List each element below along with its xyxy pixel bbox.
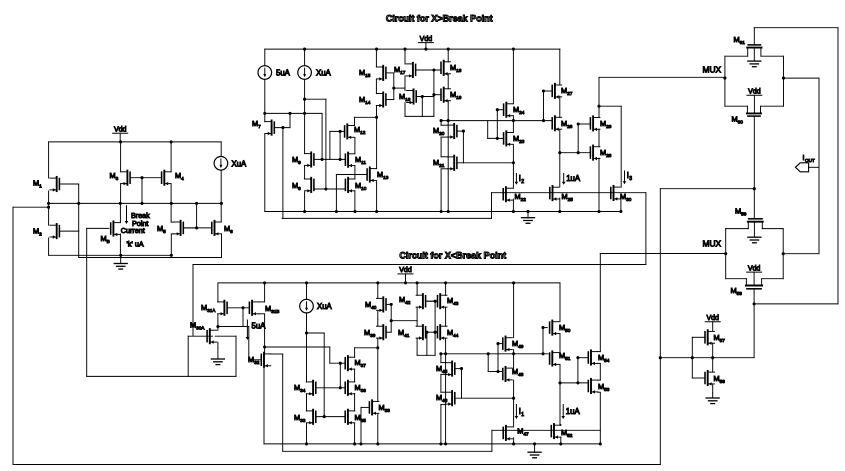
wire M27 drain (559, 49, 561, 85)
svg-text:M1: M1 (33, 179, 42, 189)
wire XuA down (303, 79, 306, 153)
label MUX lower (703, 239, 722, 249)
wire M16 source bias line (405, 115, 434, 117)
wire M35 source (354, 423, 356, 444)
svg-text:5uA: 5uA (252, 322, 267, 331)
note break point current (121, 211, 150, 249)
svg-text:M4: M4 (175, 171, 184, 181)
title: Circuit for X<Break Point (399, 250, 506, 260)
transistor M60 (725, 106, 784, 125)
wire Vdd stem MUX1 (753, 95, 755, 113)
transistor M17 (394, 63, 416, 78)
node cascode bus2 upper (560, 151, 590, 154)
wire M33 M35 gate line (316, 416, 345, 418)
transistor M9 (292, 152, 314, 167)
wire XuA2 bias branch (307, 333, 326, 418)
wire M54 gate (576, 356, 588, 383)
wire M41 gate (425, 331, 435, 334)
wire M61 gate to margin (754, 28, 838, 304)
wire M5 M6 gate node (183, 203, 212, 229)
svg-text:2: 2 (521, 179, 524, 185)
wire bias rail2 upper (282, 193, 492, 219)
wire M52 drain (560, 424, 562, 427)
wire M16 bias drop a (421, 97, 423, 117)
current arrow 1uA upper (562, 174, 581, 185)
wire MUX1 output right (784, 78, 820, 254)
transistor M40 (365, 297, 386, 312)
wire M8 M10 gate line (314, 185, 345, 189)
wire M19 source down (447, 101, 450, 212)
wire M37 drain up (355, 346, 380, 357)
wire MUX1 box right edge (782, 56, 785, 106)
wire M23 drain (512, 121, 514, 133)
port IOUT (795, 163, 819, 172)
Vdd symbol lower circuit (398, 267, 413, 274)
wire M41 source bias line (417, 354, 435, 356)
wire M3 drain (119, 140, 122, 171)
svg-text:M17: M17 (394, 65, 406, 75)
wire jog extensions M20 M21 (441, 125, 448, 169)
wire M20 drain (440, 121, 442, 126)
svg-text:M43: M43 (447, 296, 459, 306)
transistor M56 (705, 371, 725, 386)
transistor M39 (364, 325, 386, 340)
svg-text:M9: M9 (292, 155, 301, 165)
svg-text:M13: M13 (377, 170, 389, 180)
svg-text:Current: Current (121, 226, 145, 235)
wire top rail lower circuit (218, 281, 560, 284)
wire M51 source node (558, 364, 561, 425)
wire M20 gate (457, 130, 465, 163)
wire M4 source to M5 (170, 184, 172, 222)
transistor M53 (588, 379, 609, 394)
wire M27 gate (542, 89, 552, 120)
wire M7 gate (274, 112, 291, 129)
wire M16 gate (416, 95, 434, 98)
svg-text:M56: M56 (714, 374, 726, 384)
svg-text:M49: M49 (512, 339, 524, 349)
transistor M7 (252, 119, 274, 135)
svg-text:Circuit for X<Break Point: Circuit for X<Break Point (399, 250, 506, 260)
wire M42 M43 gate line (426, 300, 438, 303)
svg-text:M36: M36 (355, 383, 367, 393)
transistor M31A (201, 301, 227, 316)
wire M9 M11 gate line (314, 158, 345, 161)
wire M23 source to M22 (512, 145, 514, 189)
ground upper circuit (522, 212, 535, 224)
wire M36 source to M35 (354, 394, 356, 412)
svg-text:M8: M8 (292, 181, 301, 191)
wire M13 gate (336, 175, 367, 212)
svg-text:M14: M14 (359, 95, 371, 105)
wire XuA bias branch (305, 99, 328, 190)
wire M45 drain (440, 354, 442, 363)
wire M31A source (216, 314, 219, 328)
wire M42 column (416, 283, 418, 321)
wire M3 source (120, 184, 122, 204)
wire MB source (119, 234, 121, 255)
svg-text:M15: M15 (359, 68, 371, 78)
current source XuA lower (300, 299, 333, 313)
wire M30A node (218, 326, 249, 328)
wire MUX2 box left edge (724, 229, 727, 279)
wire jog extensions M5 (171, 222, 174, 234)
svg-text:M35: M35 (355, 413, 367, 423)
current arrow 5uA lower (246, 320, 267, 340)
wire M7 drain node (263, 112, 323, 161)
svg-text:M10: M10 (355, 181, 367, 191)
svg-text:M11: M11 (355, 155, 366, 165)
wire bias drop right (645, 193, 647, 265)
transistor M20 (433, 124, 457, 139)
svg-text:Vdd: Vdd (114, 127, 127, 134)
transistor M3 (110, 171, 131, 186)
svg-text:Vdd: Vdd (748, 265, 761, 272)
wire M29 gate (577, 122, 590, 152)
ground inside MUX lower (748, 222, 761, 243)
wire M44 gate (435, 331, 437, 333)
svg-text:M30A: M30A (190, 321, 205, 331)
wire XuA2 down (305, 313, 308, 382)
wire M16 drain link (394, 87, 405, 89)
wire M58 bus drop (753, 304, 755, 358)
wire M31B drain (264, 283, 266, 302)
wire M25 source (559, 198, 561, 212)
wire jog extensions M45 M46 (441, 363, 446, 405)
wire M7 source (264, 134, 266, 211)
svg-text:M47: M47 (517, 427, 529, 437)
current arrow I3 (623, 171, 629, 184)
wire M26 source node (558, 129, 561, 187)
svg-text:M26: M26 (561, 119, 573, 129)
wire M22 source (512, 199, 514, 211)
wire M8 source (304, 192, 306, 212)
ground inside MUX upper (748, 48, 761, 67)
svg-text:M5: M5 (157, 224, 166, 234)
wire M17 M18 gate line (416, 68, 441, 71)
svg-text:1uA: 1uA (566, 407, 581, 416)
wire M32 drain branch (270, 354, 492, 451)
transistor M21 (433, 156, 457, 171)
wire M20 M21 mid (440, 137, 442, 157)
transistor M19 (441, 88, 462, 103)
label I3 subscript (629, 176, 632, 182)
wire M7 gate drop to rail2 (282, 128, 284, 219)
wire M58 gate down (753, 289, 756, 306)
wire M50 gate (541, 326, 547, 354)
label IOUT (803, 154, 815, 163)
wire MB gate feedback (87, 228, 189, 376)
Vdd symbol left block (113, 127, 128, 134)
transistor M41 (398, 325, 426, 340)
wire Vdd stem left block (119, 133, 121, 142)
transistor M61 (725, 35, 784, 56)
current source XuA upper (298, 66, 332, 80)
svg-text:M31A: M31A (201, 303, 216, 313)
transistor M23 (504, 131, 525, 146)
wire M29 drain (597, 105, 600, 118)
svg-text:M25: M25 (562, 192, 574, 202)
node cascode bus upper (440, 119, 553, 122)
wire M37 gate (330, 347, 345, 388)
wire M45 gate (455, 367, 463, 398)
transistor M57 (705, 330, 725, 345)
wire M32 gate (249, 327, 261, 360)
wire M30 source (619, 199, 622, 214)
wire M60 M59 gate link (753, 116, 756, 219)
wire M15 gate (386, 73, 395, 100)
transistor M11 (345, 153, 366, 168)
svg-text:M20: M20 (433, 126, 445, 136)
svg-text:M3: M3 (110, 171, 119, 181)
wire M13 drain up (376, 117, 378, 168)
transistor M38 (369, 400, 390, 415)
wire M38 gate (361, 407, 369, 444)
current source 5uA (258, 66, 291, 80)
wire source rail upper (265, 210, 621, 213)
transistor M16 (399, 89, 416, 104)
svg-text:Vdd: Vdd (420, 36, 433, 43)
wire M56 source (712, 384, 714, 393)
wire M30A drain link (217, 327, 219, 331)
wire M34 M36 gate line (316, 386, 345, 389)
wire long bias line lower (193, 265, 646, 336)
svg-text:M33: M33 (294, 413, 306, 423)
svg-text:M44: M44 (447, 328, 459, 338)
transistor M26 (552, 116, 573, 131)
wire Vdd stem MUX2 (753, 272, 755, 285)
wire gate bias line lower (492, 430, 600, 451)
svg-text:M19: M19 (450, 90, 462, 100)
Vdd symbol upper circuit (418, 36, 433, 43)
wire M49 source (513, 350, 515, 354)
transistor M35 (345, 410, 366, 425)
wire M41 bias drop a (426, 332, 428, 355)
wire M48 drain (513, 354, 515, 368)
transistor M59 (726, 207, 784, 229)
ground M56 (706, 393, 719, 404)
wire M12 gate (330, 130, 345, 160)
svg-text:M50: M50 (559, 323, 571, 333)
node bus left block (47, 202, 222, 205)
transistor M36 (345, 381, 366, 396)
wire M16 bias drop b (432, 70, 435, 116)
wire M52 source (559, 437, 562, 445)
svg-text:M51: M51 (559, 351, 571, 361)
wire M6 source feedback (79, 231, 222, 258)
transistor M49 (503, 337, 524, 352)
transistor M52 (551, 424, 572, 439)
wire M48 gate line (488, 354, 503, 373)
wire M40 column (377, 283, 379, 348)
transistor M4 (162, 171, 184, 186)
wire Vdd stem upper (424, 43, 427, 51)
transistor M42 (399, 294, 426, 309)
transistor M29 (590, 116, 611, 131)
wire M45 M46 mid (440, 375, 442, 393)
wire top rail left block (49, 141, 222, 143)
wire XuA stem left (220, 142, 222, 157)
transistor M10 (345, 178, 366, 193)
wire M42 gate fix (426, 300, 436, 302)
wire MUX2 box right edge (782, 229, 785, 279)
wire M5 source (170, 234, 173, 257)
svg-text:M60: M60 (732, 115, 744, 125)
svg-text:M59: M59 (735, 207, 747, 217)
wire M9 source to M8 (304, 166, 306, 179)
label I1 subscript (521, 412, 524, 418)
svg-text:1: 1 (521, 412, 524, 418)
wire M4 drain (170, 140, 173, 171)
svg-text:M57: M57 (714, 333, 726, 343)
svg-text:5uA: 5uA (276, 69, 291, 78)
current arrow I2 (515, 174, 521, 185)
transistor M30A (190, 321, 217, 344)
transistor M12 (345, 124, 366, 139)
wire M34 source link (306, 394, 308, 411)
svg-text:M39: M39 (364, 328, 376, 338)
svg-text:Vdd: Vdd (748, 89, 761, 96)
transistor M51 (550, 351, 571, 366)
svg-text:M21: M21 (433, 158, 445, 168)
wire 5uA stem (264, 49, 266, 66)
wire M23 gate line (488, 121, 504, 140)
wire M11 source to M10 (354, 166, 356, 179)
svg-text:MUX: MUX (703, 239, 722, 249)
transistor M8 (292, 178, 314, 193)
wire M12 drain up (355, 116, 379, 126)
svg-text:M40: M40 (365, 300, 377, 310)
wire bottom rail left block (49, 254, 172, 257)
svg-text:M38: M38 (379, 403, 391, 413)
wire M49 drain up (513, 283, 515, 338)
transistor M15 (359, 66, 386, 81)
wire M54 M53 mid (599, 363, 601, 380)
wire jog extensions M54 M53 (598, 352, 601, 393)
svg-text:M27: M27 (561, 86, 573, 96)
transistor M33 (294, 410, 316, 425)
transistor M28 (590, 146, 611, 161)
current arrow I1 (515, 405, 521, 420)
transistor M24 (504, 103, 525, 118)
svg-text:M23: M23 (513, 134, 525, 144)
wire output node upper (599, 77, 726, 187)
wire M17 column (404, 49, 406, 116)
transistor M6 (212, 221, 233, 236)
current arrow 1uA lower (561, 405, 580, 420)
wire M46 source (440, 404, 442, 444)
ground left block (114, 255, 127, 269)
wire M43 column (445, 283, 447, 326)
wire MUX1 box left edge (723, 56, 726, 106)
svg-text:M18: M18 (450, 63, 462, 73)
label MUX upper (703, 65, 722, 75)
svg-text:1uA: 1uA (566, 174, 581, 183)
node cascode bus lower (439, 352, 548, 355)
svg-text:M16: M16 (399, 92, 411, 102)
node bias bus right (659, 356, 754, 359)
wire M19 gate (434, 94, 441, 96)
wire left feedback long (13, 189, 754, 465)
title: Circuit for X>Break Point (386, 13, 493, 23)
svg-text:M37: M37 (355, 358, 367, 368)
transistor M47 (503, 426, 529, 441)
label I2 subscript (521, 179, 524, 185)
wire M31B gate drop (242, 308, 244, 327)
wire M30A gate loop (188, 336, 236, 376)
svg-text:3: 3 (629, 176, 632, 182)
wire top rail upper circuit (265, 48, 560, 51)
svg-text:M53: M53 (598, 382, 610, 392)
transistor M22 (503, 187, 526, 202)
transistor M43 (438, 294, 459, 309)
wire MB drain (119, 203, 121, 222)
wire M57 M56 gate tie (692, 337, 705, 378)
wire M54 drain up (600, 254, 725, 352)
transistor M5 (157, 221, 197, 236)
transistor M2 (33, 224, 79, 239)
svg-text:M54: M54 (598, 353, 610, 363)
svg-text:M28: M28 (600, 148, 612, 158)
wire MUX2 output right (783, 253, 819, 255)
svg-text:M24: M24 (513, 105, 525, 115)
svg-text:M30: M30 (620, 192, 632, 202)
wire M50 drain (559, 283, 561, 322)
wire M15 column (375, 49, 377, 117)
wire M38 drain up (377, 348, 379, 402)
transistor M1 (33, 177, 79, 192)
wire M31A M31B gate line (227, 306, 249, 309)
transistor M37 (345, 356, 366, 371)
transistor M27 (552, 84, 573, 99)
wire Vdd stem lower (404, 274, 407, 285)
wire M49 gate (496, 342, 502, 371)
wire jog extensions M31B (259, 302, 265, 314)
svg-text:M29: M29 (600, 119, 612, 129)
wire M24 source (512, 116, 514, 121)
svg-text:M58: M58 (731, 286, 743, 296)
wire M12 source to M11 (354, 137, 356, 153)
wire M33 source (306, 423, 308, 444)
svg-text:M34: M34 (294, 383, 306, 393)
wire M56 drain (712, 358, 714, 372)
wire M31A drain (217, 283, 219, 302)
transistor M30 (611, 186, 632, 202)
transistor MB (101, 221, 121, 244)
transistor M13 (367, 167, 389, 182)
svg-text:M41: M41 (398, 328, 410, 338)
wire M30A source (217, 342, 219, 348)
wire 5uA to M7 (264, 79, 266, 121)
svg-text:Vdd: Vdd (706, 315, 719, 322)
wire left rail M1 M2 (48, 142, 50, 255)
wire M32 node to bias (265, 346, 330, 348)
svg-text:M52: M52 (561, 428, 573, 438)
wire M40 gate (386, 303, 393, 332)
ground lower circuit (528, 444, 541, 458)
wire M46 gate line (455, 397, 515, 400)
svg-text:M42: M42 (399, 295, 411, 305)
wire M21 source (440, 169, 442, 212)
transistor M45 (436, 362, 455, 377)
svg-text:M12: M12 (354, 125, 366, 135)
wire M47 source (513, 438, 515, 444)
wire M41 bias drop b (434, 301, 437, 355)
transistor M34 (294, 381, 316, 396)
wire M10 source (354, 191, 356, 212)
wire M50 M51 mid (559, 334, 561, 353)
transistor M25 (550, 186, 573, 202)
